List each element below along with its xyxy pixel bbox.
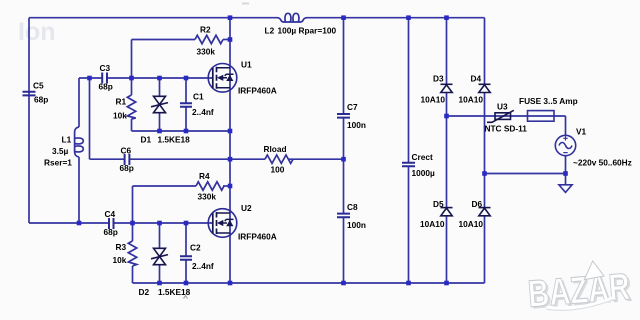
svg-text:R2: R2	[200, 24, 211, 34]
svg-text:10A10: 10A10	[420, 219, 445, 229]
node junction row223 at L1	[77, 221, 82, 226]
wire left column x29	[28, 18, 30, 223]
wire C1 top lead	[185, 78, 187, 103]
wire L1 column bottom lead	[78, 157, 80, 223]
node junction top rail at Crect column	[406, 15, 411, 20]
wire NTC fuse row 116	[447, 115, 566, 117]
svg-text:V1: V1	[576, 126, 587, 136]
wire C8 to bottom rail	[343, 217, 345, 283]
node junction top rail at C7 column	[341, 15, 346, 20]
svg-text:D5: D5	[433, 199, 444, 209]
svg-text:IRFP460A: IRFP460A	[238, 85, 277, 95]
wire R1 bottom lead	[131, 119, 133, 131]
wire bottom rail	[133, 282, 485, 284]
wire midpoint column x230	[229, 18, 231, 283]
node junction bottom rail at D5	[444, 281, 449, 286]
svg-text:C2: C2	[190, 242, 201, 252]
wire D2 top lead	[159, 223, 161, 248]
svg-text:1.5KE18: 1.5KE18	[158, 134, 191, 144]
svg-text:330k: 330k	[197, 47, 216, 57]
svg-text:3.5µ: 3.5µ	[52, 146, 69, 156]
svg-text:68p: 68p	[99, 81, 113, 91]
inductor L2 100u	[277, 18, 307, 22]
wire C7 C8 column x343.5	[343, 18, 345, 114]
node junction row223 at D2	[157, 221, 162, 226]
ground	[559, 185, 572, 193]
node junction R2 to drain	[228, 37, 233, 42]
svg-text:1000µ: 1000µ	[412, 168, 435, 178]
wire C7 to Rload junction	[343, 118, 345, 214]
thermistor U3 NTC SD-11	[487, 110, 514, 122]
node junction bottom rail at C8	[341, 281, 346, 286]
wire row 223 cont after C4	[114, 222, 214, 224]
wire row 223 (U2 gate row)	[29, 222, 109, 224]
capacitor C3 68p	[102, 73, 107, 84]
node junction bottom rail at C2	[184, 281, 189, 286]
resistor R4 330k	[196, 182, 224, 190]
svg-text:Rload: Rload	[264, 144, 287, 154]
wire D4 D6 column x484.5	[484, 18, 486, 283]
inductor L1 3.5u	[75, 127, 79, 157]
TVS diode D2 1.5KE18	[151, 248, 168, 264]
stray mark bottom	[184, 296, 188, 299]
wire row 159 Rload to C7C8 column	[289, 158, 344, 160]
svg-text:D4: D4	[471, 73, 482, 83]
node junction bottom rail at D2	[157, 281, 162, 286]
svg-text:Rpar=100: Rpar=100	[299, 25, 337, 35]
diode D6 10A10	[479, 208, 491, 216]
node junction gate row at C1	[184, 76, 189, 81]
wire Crect column bottom	[408, 167, 410, 284]
svg-text:R3: R3	[116, 242, 127, 252]
node junction row223 at R3	[130, 221, 135, 226]
svg-text:100n: 100n	[347, 220, 366, 230]
svg-text:R1: R1	[116, 96, 127, 106]
svg-text:2..4nf: 2..4nf	[192, 107, 214, 117]
wire ground stub	[565, 174, 567, 185]
svg-text:L1: L1	[62, 134, 72, 144]
resistor R2 330k	[195, 35, 223, 43]
node junction row186 at midpoint	[228, 184, 233, 189]
capacitor C4 68p	[109, 218, 114, 229]
stray mark top	[242, 3, 249, 5]
op-amp U1 MOSFET IRFP460A	[208, 64, 237, 93]
node junction row159 at midpoint	[228, 157, 233, 162]
wire Crect column top	[408, 18, 410, 163]
node junction top rail at D3 column	[444, 15, 449, 20]
wire D3 D5 column x446.5	[446, 18, 448, 283]
wire R2 row 39.5	[132, 39, 196, 41]
capacitor C5 68p	[23, 92, 36, 96]
wire fuse to V1 top	[565, 116, 567, 135]
node junction row173 at D4 column	[482, 171, 487, 176]
wire row 173.5 V1 return	[485, 173, 566, 175]
node junction row131 at C1	[184, 129, 189, 134]
svg-text:D6: D6	[472, 199, 483, 209]
TVS diode D1 1.5KE18	[151, 96, 168, 112]
node junction gate row at D1	[157, 76, 162, 81]
node junction NTC row at D3 column	[444, 114, 449, 119]
node junction bottom rail at Crect	[406, 281, 411, 286]
wire D1 top lead	[159, 78, 161, 96]
fuse FUSE 3..5 Amp	[528, 111, 555, 122]
svg-text:10k: 10k	[113, 255, 127, 265]
svg-text:68p: 68p	[34, 95, 48, 105]
svg-text:10A10: 10A10	[459, 219, 484, 229]
svg-text:C6: C6	[121, 146, 132, 156]
svg-text:100: 100	[271, 164, 285, 174]
diode D3 10A10	[441, 84, 453, 92]
wire row 78 (U1 gate row) left of C3	[79, 77, 102, 79]
svg-text:68p: 68p	[104, 227, 118, 237]
node junction row131 at midpoint	[228, 129, 233, 134]
svg-text:C3: C3	[100, 63, 111, 73]
svg-text:C7: C7	[347, 102, 358, 112]
resistor R3 10k	[128, 241, 136, 266]
svg-text:330k: 330k	[198, 191, 217, 201]
node junction row131 at D1	[157, 129, 162, 134]
svg-text:10A10: 10A10	[459, 94, 484, 104]
wire R3 bottom lead	[132, 266, 134, 283]
svg-text:U3: U3	[497, 101, 508, 111]
node junction row159 at C7 column	[341, 157, 346, 162]
wire row 159 midpoint to Rload	[230, 158, 265, 160]
wire L1 column top lead	[78, 78, 80, 127]
wire D2 bottom lead	[159, 265, 161, 283]
diode D4 10A10	[479, 84, 491, 92]
wire column x132.5 R4 to gate row to R3	[132, 186, 134, 241]
wire column x131.5 R2 to gate row to R1	[131, 40, 133, 96]
svg-text:~220v 50..60Hz: ~220v 50..60Hz	[573, 157, 632, 167]
svg-text:IRFP460A: IRFP460A	[238, 231, 277, 241]
svg-text:D2: D2	[139, 287, 150, 297]
svg-text:100µ: 100µ	[278, 25, 297, 35]
op-amp U2 MOSFET IRFP460A	[208, 209, 237, 238]
wire row 159 left of C6	[90, 158, 125, 160]
svg-text:FUSE 3..5 Amp: FUSE 3..5 Amp	[519, 96, 578, 106]
capacitor C2 2..4nf	[180, 256, 192, 260]
svg-text:Rser=1: Rser=1	[44, 157, 72, 167]
svg-text:68p: 68p	[120, 163, 134, 173]
capacitor C7 100n	[337, 114, 350, 118]
svg-text:Ion: Ion	[18, 18, 56, 46]
capacitor C6 68p	[125, 154, 130, 165]
svg-text:C8: C8	[347, 202, 358, 212]
svg-text:100n: 100n	[347, 120, 366, 130]
capacitor C1 2..4nf	[180, 103, 192, 107]
capacitor Crect 1000u	[402, 163, 415, 167]
svg-text:Crect: Crect	[412, 152, 433, 162]
svg-text:10k: 10k	[113, 110, 127, 120]
svg-text:C1: C1	[193, 91, 204, 101]
svg-text:U2: U2	[241, 203, 252, 213]
wire top rail right of L2	[307, 17, 485, 19]
node junction bottom rail at midpoint	[228, 281, 233, 286]
wire D1 bottom lead	[159, 113, 161, 131]
wire C1 bottom lead	[185, 107, 187, 131]
svg-text:C5: C5	[33, 81, 44, 91]
wire row 78 right of C3	[107, 77, 213, 79]
svg-text:D3: D3	[433, 73, 444, 83]
wire R2 right lead	[223, 39, 230, 41]
wire row 131 (U1 source row)	[132, 130, 231, 132]
diode D5 10A10	[441, 208, 453, 216]
node junction row223 at C2	[184, 221, 189, 226]
wire C2 bottom lead	[185, 260, 187, 283]
wire R4 row 186	[133, 185, 197, 187]
svg-text:L2: L2	[265, 25, 275, 35]
wire column x89.5 (C3/C6 node)	[89, 78, 91, 159]
wire R4 right lead	[223, 185, 230, 187]
svg-text:2..4nf: 2..4nf	[192, 261, 214, 271]
capacitor C8 100n	[337, 214, 350, 218]
node junction gate row at R1	[129, 76, 134, 81]
node junction gate row at x89.5	[87, 76, 92, 81]
wire row 159 C6 to midpoint	[129, 158, 230, 160]
node junction top rail at midpoint column	[228, 15, 233, 20]
svg-text:R4: R4	[199, 171, 210, 181]
voltage source V1	[555, 135, 575, 155]
svg-text:D1: D1	[141, 134, 152, 144]
wire top rail left of L2	[29, 17, 277, 19]
svg-text:10A10: 10A10	[421, 94, 446, 104]
watermark BAZAR logo	[526, 258, 634, 318]
resistor R1 10k	[127, 95, 135, 119]
svg-text:NTC SD-11: NTC SD-11	[485, 123, 528, 133]
node junction row173 at ground	[563, 171, 568, 176]
wire V1 bottom lead	[565, 156, 567, 174]
wire C2 top lead	[185, 223, 187, 256]
svg-text:C4: C4	[105, 209, 116, 219]
resistor Rload 100	[265, 155, 293, 163]
svg-text:U1: U1	[241, 59, 252, 69]
